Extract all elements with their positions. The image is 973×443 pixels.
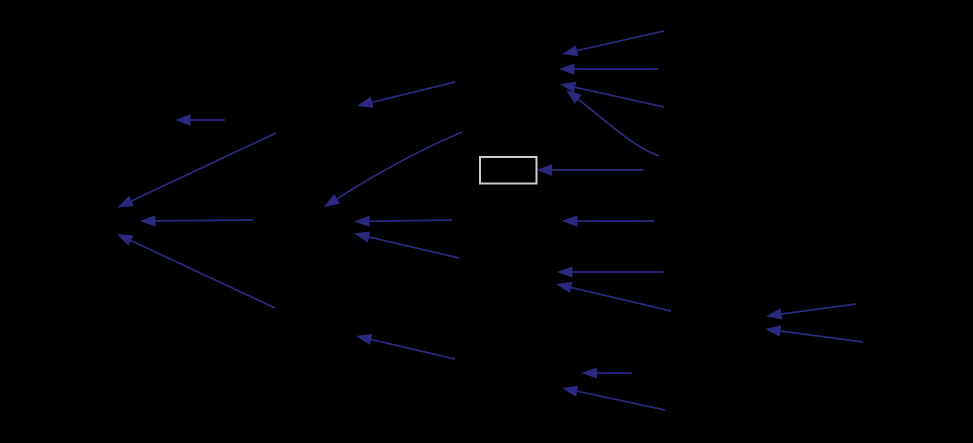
arrowhead E5 bbox=[117, 234, 133, 246]
arrowhead E20 bbox=[562, 386, 578, 397]
wire E1 bbox=[191, 119, 226, 121]
wire E3 bbox=[132, 133, 277, 201]
wire E21 bbox=[578, 220, 655, 222]
wire E19 bbox=[597, 372, 632, 374]
wire E12 bbox=[578, 99, 659, 156]
arrowhead E21 bbox=[562, 215, 578, 226]
wire E9 bbox=[577, 31, 664, 51]
arrowhead E2 bbox=[357, 97, 373, 108]
wire E8 bbox=[369, 237, 459, 258]
arrowhead E12 bbox=[566, 90, 582, 104]
arrowhead E16 bbox=[766, 308, 782, 319]
arrowhead E3 bbox=[118, 196, 134, 208]
wire E14 bbox=[573, 271, 665, 273]
arrowhead E14 bbox=[557, 266, 573, 277]
arrowhead E18 bbox=[356, 334, 372, 345]
wire E13 bbox=[552, 169, 643, 171]
arrowhead E8 bbox=[354, 232, 370, 243]
wire E20 bbox=[577, 391, 665, 410]
arrowhead E15 bbox=[556, 282, 572, 293]
wire E15 bbox=[571, 288, 671, 312]
node box bbox=[480, 157, 537, 184]
arrowhead E17 bbox=[765, 325, 781, 336]
wire E7 bbox=[370, 220, 453, 221]
wire E10 bbox=[575, 68, 659, 70]
wire E5 bbox=[131, 241, 275, 308]
arrowhead E11 bbox=[560, 82, 576, 93]
wire E6 bbox=[337, 132, 462, 199]
arrowhead E6 bbox=[324, 194, 340, 207]
wire E4 bbox=[156, 219, 254, 222]
wire E16 bbox=[781, 304, 856, 314]
arrowhead E10 bbox=[559, 63, 575, 74]
arrowhead E4 bbox=[140, 215, 156, 226]
wire E2 bbox=[372, 82, 455, 102]
arrowhead E9 bbox=[562, 45, 578, 56]
wire E18 bbox=[371, 340, 455, 360]
arrowhead E1 bbox=[175, 114, 191, 125]
wire E17 bbox=[780, 331, 863, 342]
wire E11 bbox=[575, 87, 664, 107]
arrowhead E19 bbox=[582, 367, 598, 378]
arrowhead E13 bbox=[537, 164, 553, 175]
arrowhead E7 bbox=[354, 216, 370, 227]
